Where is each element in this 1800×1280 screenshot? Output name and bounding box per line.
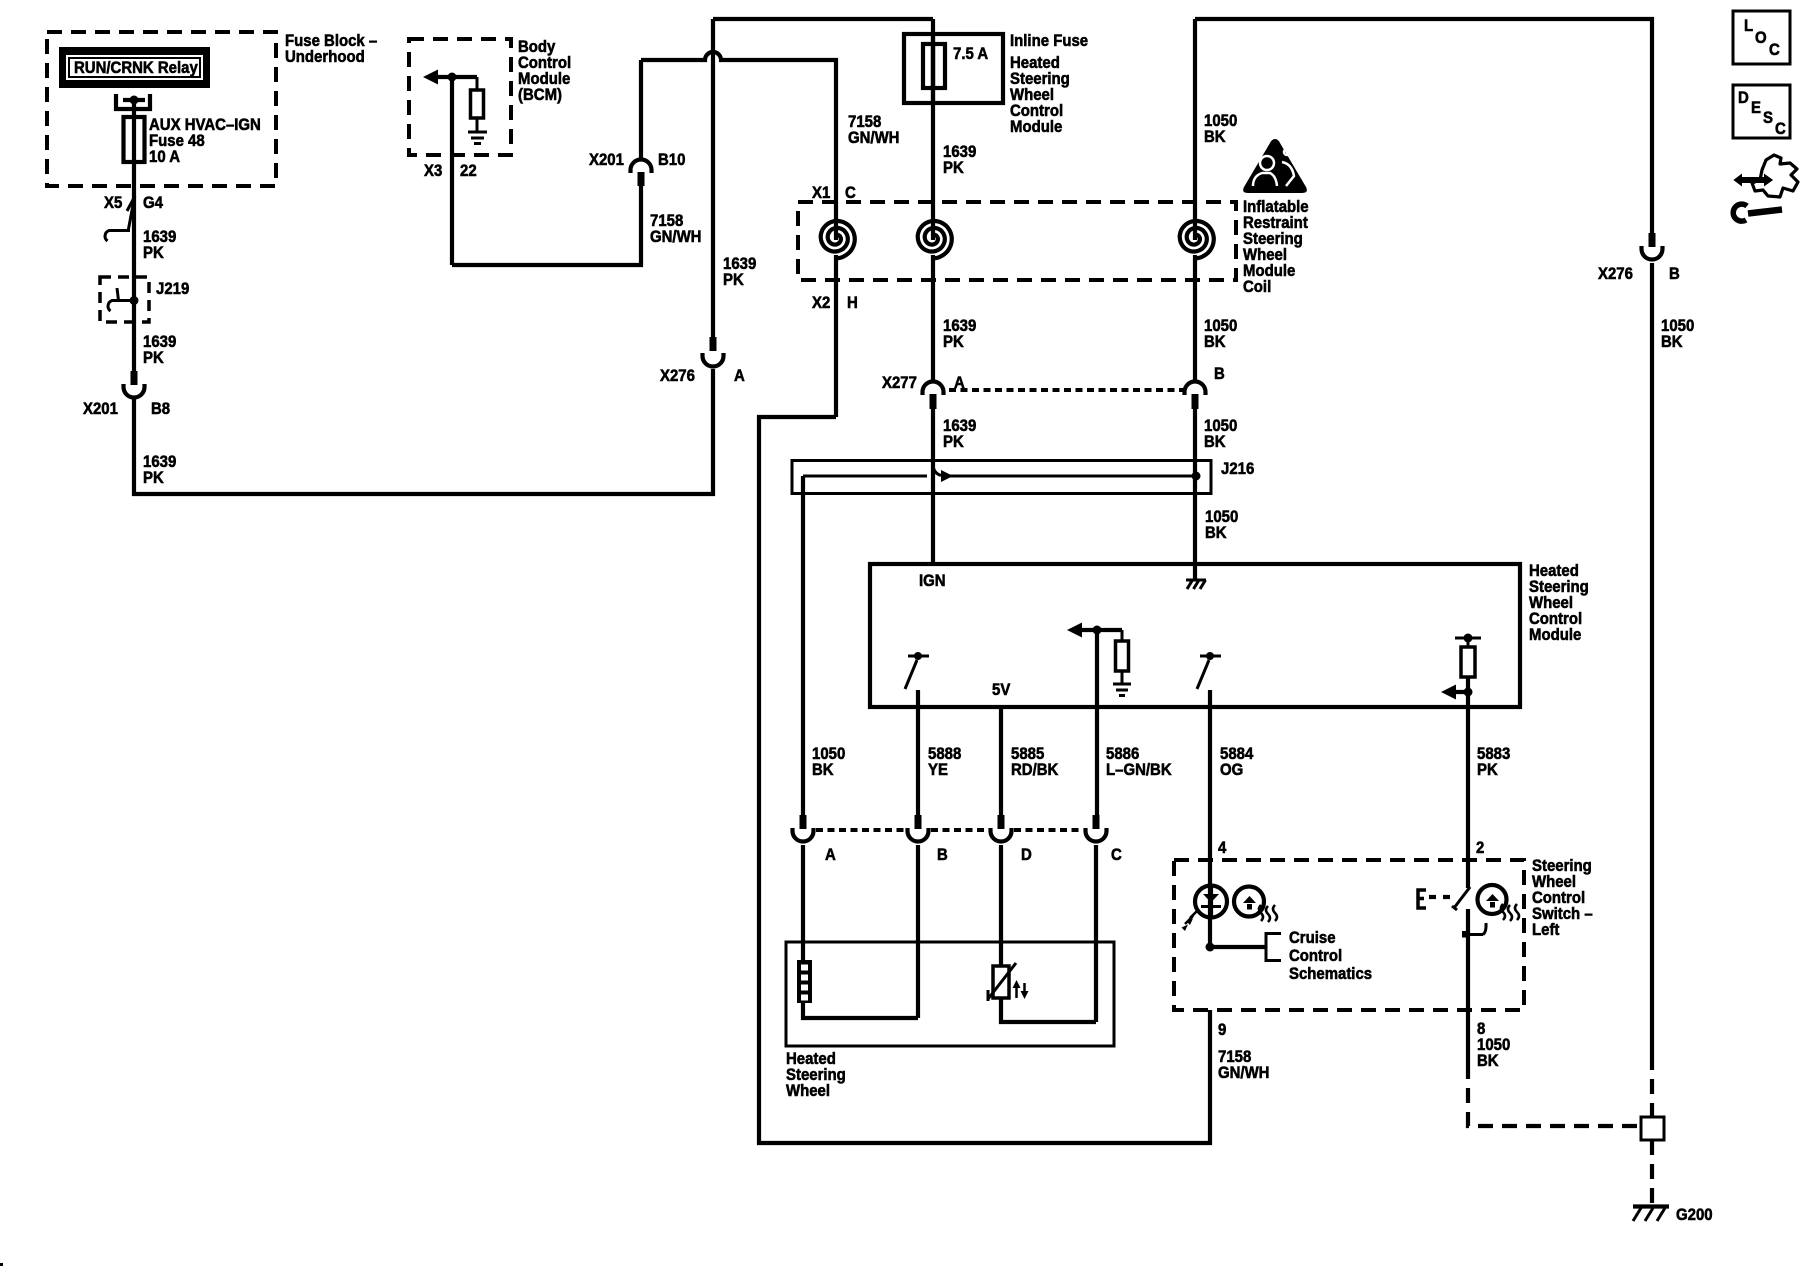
svg-text:B: B [1214, 365, 1225, 383]
svg-text:X201: X201 [83, 400, 118, 418]
svg-text:Underhood: Underhood [285, 48, 365, 66]
svg-text:7.5 A: 7.5 A [953, 45, 989, 63]
svg-text:A: A [825, 846, 836, 864]
svg-text:BK: BK [812, 761, 834, 779]
svg-text:Coil: Coil [1243, 278, 1271, 296]
svg-text:X201: X201 [589, 151, 624, 169]
svg-text:C: C [1111, 846, 1122, 864]
svg-text:J216: J216 [1221, 460, 1254, 478]
svg-text:L: L [1744, 17, 1753, 35]
svg-text:H: H [847, 294, 858, 312]
svg-text:PK: PK [143, 349, 164, 367]
svg-text:G4: G4 [143, 194, 163, 212]
svg-text:X1: X1 [812, 184, 830, 202]
svg-text:RUN/CRNK Relay: RUN/CRNK Relay [74, 59, 198, 77]
svg-text:Wheel: Wheel [786, 1082, 830, 1100]
svg-text:C: C [1775, 120, 1786, 138]
svg-text:G200: G200 [1676, 1206, 1713, 1224]
svg-text:YE: YE [928, 761, 948, 779]
svg-text:PK: PK [943, 333, 964, 351]
svg-text:Schematics: Schematics [1289, 965, 1372, 983]
svg-text:BK: BK [1204, 128, 1226, 146]
svg-text:BK: BK [1477, 1052, 1499, 1070]
svg-text:PK: PK [1477, 761, 1498, 779]
svg-text:B: B [1669, 265, 1680, 283]
svg-text:B10: B10 [658, 151, 686, 169]
svg-text:D: D [1021, 846, 1032, 864]
svg-text:4: 4 [1218, 839, 1226, 857]
svg-text:D: D [1738, 89, 1749, 107]
svg-text:C: C [845, 184, 856, 202]
svg-text:S: S [1763, 109, 1773, 127]
svg-text:B: B [937, 846, 948, 864]
svg-text:C: C [1769, 41, 1780, 59]
svg-text:X5: X5 [104, 194, 122, 212]
svg-text:Control: Control [1289, 947, 1342, 965]
svg-text:Cruise: Cruise [1289, 929, 1336, 947]
svg-text:A: A [734, 367, 745, 385]
svg-text:GN/WH: GN/WH [848, 129, 899, 147]
svg-text:O: O [1755, 29, 1767, 47]
svg-text:X277: X277 [882, 374, 917, 392]
svg-text:GN/WH: GN/WH [650, 228, 701, 246]
svg-text:BK: BK [1204, 433, 1226, 451]
svg-text:(BCM): (BCM) [518, 86, 562, 104]
svg-text:OG: OG [1220, 761, 1243, 779]
svg-text:X276: X276 [660, 367, 695, 385]
svg-text:9: 9 [1218, 1021, 1226, 1039]
svg-text:E: E [1751, 99, 1761, 117]
svg-text:BK: BK [1661, 333, 1683, 351]
svg-text:X3: X3 [424, 162, 442, 180]
svg-text:BK: BK [1204, 333, 1226, 351]
svg-text:X276: X276 [1598, 265, 1633, 283]
svg-text:PK: PK [143, 469, 164, 487]
svg-text:PK: PK [143, 244, 164, 262]
svg-text:5V: 5V [992, 681, 1011, 699]
svg-text:Module: Module [1529, 626, 1581, 644]
svg-text:B8: B8 [151, 400, 170, 418]
svg-text:L–GN/BK: L–GN/BK [1106, 761, 1172, 779]
svg-text:PK: PK [943, 433, 964, 451]
svg-text:IGN: IGN [919, 572, 946, 590]
svg-text:10 A: 10 A [149, 148, 180, 166]
svg-text:PK: PK [943, 159, 964, 177]
svg-text:X2: X2 [812, 294, 830, 312]
svg-text:RD/BK: RD/BK [1011, 761, 1059, 779]
svg-text:BK: BK [1205, 524, 1227, 542]
svg-text:Left: Left [1532, 921, 1560, 939]
svg-text:2: 2 [1476, 839, 1484, 857]
svg-text:Module: Module [1010, 118, 1062, 136]
svg-text:PK: PK [723, 271, 744, 289]
svg-text:Inline Fuse: Inline Fuse [1010, 32, 1088, 50]
svg-text:GN/WH: GN/WH [1218, 1064, 1269, 1082]
svg-text:22: 22 [460, 162, 477, 180]
svg-text:J219: J219 [156, 280, 189, 298]
